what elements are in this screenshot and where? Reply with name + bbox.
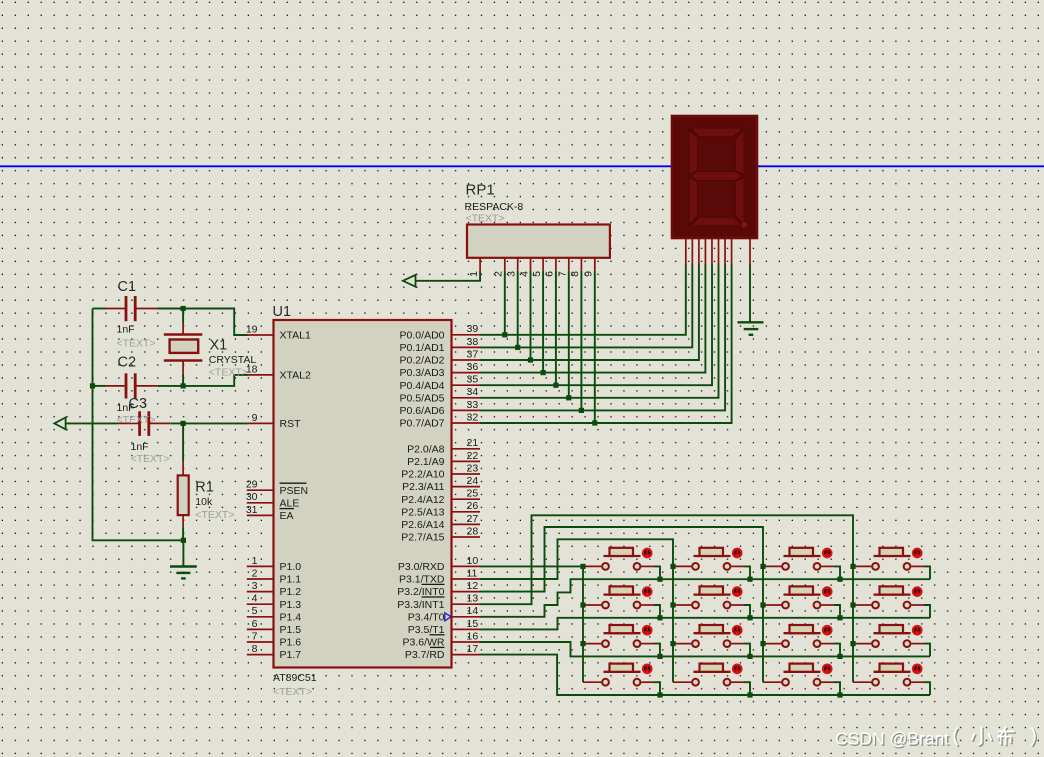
svg-text:P3.7/RD: P3.7/RD [405,649,445,661]
svg-text:XTAL1: XTAL1 [280,330,311,342]
svg-text:P0.7/AD7: P0.7/AD7 [400,418,445,430]
svg-text:14: 14 [467,605,479,617]
svg-text:P3.0/RXD: P3.0/RXD [398,561,445,573]
svg-text:P0.3/AD3: P0.3/AD3 [400,367,445,379]
svg-text:8: 8 [252,643,258,655]
svg-text:28: 28 [467,525,479,537]
svg-text:P1.6: P1.6 [280,637,302,649]
svg-text:32: 32 [467,411,479,423]
svg-text:4: 4 [252,593,258,605]
svg-text:19: 19 [246,323,258,335]
svg-text:P1.0: P1.0 [280,561,302,573]
svg-text:P0.1/AD1: P0.1/AD1 [400,342,445,354]
svg-text:P2.4/A12: P2.4/A12 [401,494,444,506]
svg-text:P0.5/AD5: P0.5/AD5 [400,392,445,404]
svg-text:<TEXT>: <TEXT> [195,509,234,521]
svg-text:7: 7 [557,271,569,277]
svg-text:11: 11 [467,567,478,579]
svg-text:P3.3/INT1: P3.3/INT1 [397,599,444,611]
svg-text:RST: RST [280,418,302,430]
svg-text:4: 4 [518,271,530,277]
svg-text:10: 10 [467,555,479,567]
svg-text:6: 6 [544,271,556,277]
svg-text:15: 15 [467,618,479,630]
svg-text:ALE: ALE [280,497,300,509]
svg-text:22: 22 [467,450,479,462]
svg-text:13: 13 [467,593,479,605]
svg-text:2: 2 [493,271,505,277]
svg-text:RP1: RP1 [466,182,495,199]
svg-text:21: 21 [467,437,479,449]
svg-text:33: 33 [467,399,479,411]
svg-text:P0.0/AD0: P0.0/AD0 [400,329,445,341]
svg-text:<TEXT>: <TEXT> [117,338,156,350]
svg-text:6: 6 [252,618,258,630]
svg-text:AT89C51: AT89C51 [273,672,317,684]
svg-text:P2.5/A13: P2.5/A13 [401,506,444,518]
svg-text:P2.6/A14: P2.6/A14 [401,519,444,531]
svg-text:C1: C1 [118,279,137,295]
svg-text:18: 18 [246,363,258,375]
svg-text:17: 17 [467,643,479,655]
svg-text:P0.4/AD4: P0.4/AD4 [400,380,445,392]
svg-text:16: 16 [467,630,479,642]
svg-text:EA: EA [280,510,294,522]
svg-text:37: 37 [467,348,479,360]
svg-text:RESPACK-8: RESPACK-8 [465,201,524,213]
svg-text:<TEXT>: <TEXT> [466,213,505,225]
svg-text:1: 1 [468,271,480,277]
svg-text:P0.6/AD6: P0.6/AD6 [400,405,445,417]
svg-text:5: 5 [531,271,543,277]
svg-text:25: 25 [467,488,479,500]
svg-text:P2.3/A11: P2.3/A11 [402,481,445,493]
svg-text:7: 7 [252,630,258,642]
svg-text:26: 26 [467,500,479,512]
svg-text:8: 8 [569,271,581,277]
svg-text:C3: C3 [129,396,148,412]
svg-text:31: 31 [246,504,258,516]
svg-text:P1.1: P1.1 [280,574,302,586]
svg-text:CSDN @Brant: CSDN @Brant [835,729,949,749]
svg-text:R1: R1 [195,480,214,496]
svg-text:2: 2 [252,567,258,579]
svg-text:12: 12 [467,580,479,592]
svg-text:35: 35 [467,374,479,386]
svg-text:29: 29 [246,479,258,491]
svg-text:39: 39 [467,323,479,335]
svg-text:C2: C2 [118,355,137,371]
svg-text:30: 30 [246,491,258,503]
svg-text:P1.5: P1.5 [280,624,302,636]
svg-text:P1.3: P1.3 [280,599,302,611]
svg-text:P1.2: P1.2 [280,586,302,598]
svg-text:XTAL2: XTAL2 [280,370,311,382]
svg-text:P1.4: P1.4 [280,611,302,623]
svg-text:1: 1 [252,555,258,567]
svg-text:P2.7/A15: P2.7/A15 [401,532,444,544]
svg-text:36: 36 [467,361,479,373]
svg-text:23: 23 [467,462,479,474]
svg-text:PSEN: PSEN [280,485,309,497]
svg-text:P0.2/AD2: P0.2/AD2 [400,355,445,367]
svg-text:9: 9 [583,271,595,277]
svg-text:10k: 10k [195,496,213,508]
svg-text:1nF: 1nF [131,441,149,453]
svg-text:9: 9 [252,412,258,424]
svg-text:1nF: 1nF [117,324,135,336]
svg-text:P3.4/T0: P3.4/T0 [408,611,445,623]
svg-text:P2.1/A9: P2.1/A9 [407,456,445,468]
svg-text:24: 24 [467,475,479,487]
svg-text:5: 5 [252,605,258,617]
svg-text:27: 27 [467,513,479,525]
svg-text:<TEXT>: <TEXT> [131,453,170,465]
svg-text:3: 3 [506,271,518,277]
svg-text:34: 34 [467,386,479,398]
svg-text:<TEXT>: <TEXT> [117,414,156,426]
svg-text:U1: U1 [273,304,292,320]
svg-text:P1.7: P1.7 [280,649,302,661]
svg-text:<TEXT>: <TEXT> [273,686,312,698]
svg-text:<TEXT>: <TEXT> [209,367,248,379]
svg-text:P2.0/A8: P2.0/A8 [407,443,445,455]
svg-text:38: 38 [467,336,479,348]
svg-text:X1: X1 [210,338,228,354]
svg-text:3: 3 [252,580,258,592]
svg-text:P2.2/A10: P2.2/A10 [401,469,444,481]
